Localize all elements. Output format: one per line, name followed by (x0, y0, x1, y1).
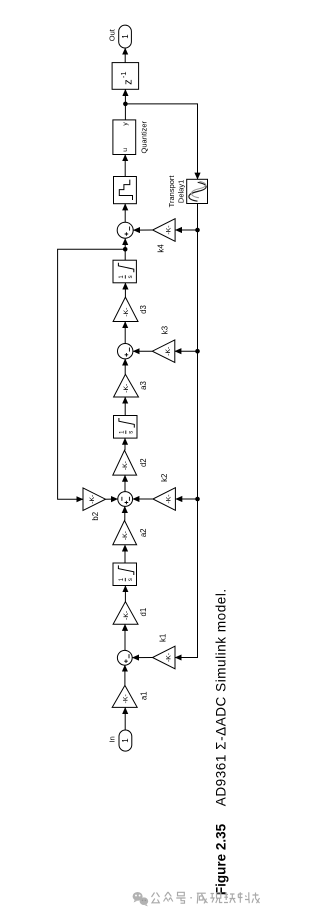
wire a2 to sum S2 (124, 507, 126, 521)
Transport Delay1 block (167, 175, 208, 208)
wire k2 to sum S2 (133, 498, 153, 500)
integrator I3 (113, 260, 136, 283)
node feedback tap (123, 102, 128, 107)
outport Out (107, 25, 131, 48)
sum S4 (117, 222, 133, 238)
wire unit delay to Out (124, 48, 126, 62)
wire a3 to sum S3 (124, 359, 126, 374)
integrator I2 (114, 416, 138, 439)
node k3 tap (195, 349, 200, 354)
gain d1 (113, 602, 148, 625)
wire S4 to zero-order-hold (124, 204, 126, 222)
gain k4 (153, 219, 176, 253)
wire k4 to sum S4 (134, 229, 153, 231)
wire Quantizer to unit delay with feedback node (124, 90, 126, 120)
watermark text 公众号·威视锐科技 (152, 892, 260, 904)
gain a1 (112, 685, 148, 707)
wire a1 to sum S1 (124, 665, 126, 685)
gain a2 (113, 521, 148, 545)
wire k3 to sum S3 (133, 350, 152, 352)
gain b2 (83, 488, 106, 521)
wire I1 to a2 (124, 545, 126, 563)
wire k1 to sum S1 (133, 657, 153, 659)
watermark logo bubbles (133, 892, 149, 906)
node b2 tap (123, 247, 128, 252)
wire feedback tap down and left to Transport Delay1 (125, 104, 197, 179)
wire d1 to integrator I1 (124, 586, 126, 602)
gain k2 (153, 474, 176, 511)
wire S1 to d1 (124, 625, 126, 651)
node k4 tap (195, 228, 200, 233)
sum S2 (118, 492, 133, 507)
gain d3 (113, 297, 148, 321)
wire d3 to integrator I3 (124, 283, 126, 297)
wire S3 to d3 (124, 322, 126, 344)
wire b2 to sum S2 (106, 498, 118, 500)
zero-order-hold block (114, 177, 137, 204)
wire I3 to sum S4 with node to b2 (124, 239, 126, 261)
node k2 tap (195, 497, 200, 502)
wire k3 tap up to k3 (175, 350, 198, 352)
wire k2 tap up to k2 (176, 498, 198, 500)
wire feedback bus from Transport Delay1 to k1 (175, 204, 197, 658)
wire zero-order-hold to Quantizer (124, 155, 126, 177)
gain d2 (113, 450, 148, 475)
Quantizer block (113, 120, 148, 155)
gain k1 (153, 634, 176, 669)
inport In (108, 730, 132, 751)
wire In to a1 (124, 708, 126, 730)
wire k4 tap up to k4 (176, 229, 198, 231)
wire b2 path from node over the top to b2 (58, 249, 126, 499)
gain k3 (152, 326, 175, 363)
gain a3 (114, 374, 148, 397)
sum S3 (118, 344, 133, 359)
wire I2 to a3 (124, 397, 126, 415)
wire S2 to d2 (124, 475, 126, 491)
sum S1 (117, 650, 132, 665)
unit delay z-1 (112, 63, 139, 90)
wire d2 to integrator I2 (124, 438, 126, 450)
integrator I1 (113, 563, 137, 586)
